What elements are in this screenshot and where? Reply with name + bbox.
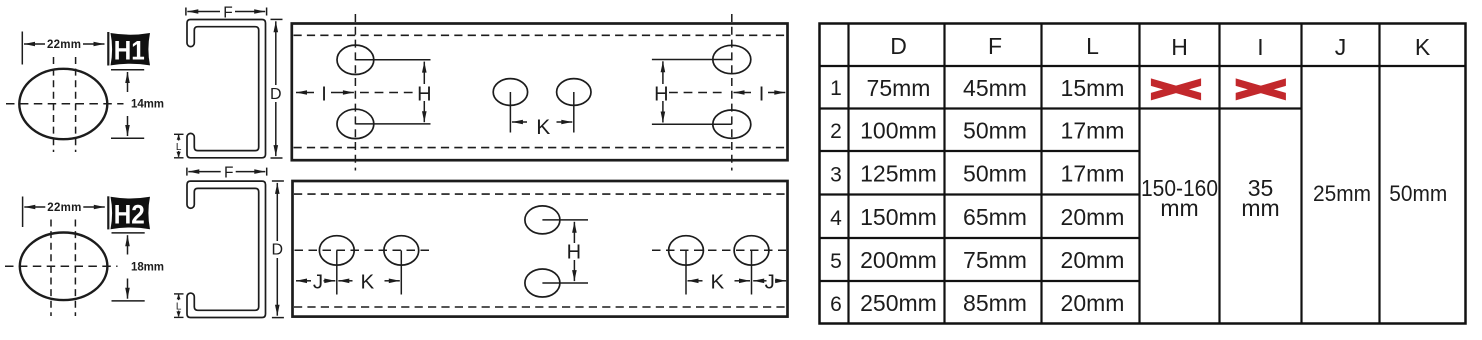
column D values (860, 75, 937, 316)
svg-text:20mm: 20mm (1061, 247, 1125, 273)
hole ellipse (H1) (19, 69, 107, 139)
red X mark (I row 1) (1236, 78, 1286, 100)
dimension 18mm (H2) (112, 233, 145, 301)
svg-text:H: H (567, 242, 581, 264)
dimension 14mm (H1) (111, 70, 144, 139)
svg-text:250mm: 250mm (860, 290, 937, 316)
dimension 22mm (H2) (23, 197, 105, 228)
dimension K (top panel) (512, 121, 572, 123)
svg-text:50mm: 50mm (963, 118, 1027, 144)
dimension I (top panel right) (669, 92, 785, 94)
stub lines center group (bottom panel) (542, 220, 588, 283)
svg-text:J: J (1335, 34, 1347, 60)
svg-text:mm: mm (1160, 195, 1198, 221)
dimension K (bottom panel left) (338, 280, 400, 282)
dimension L (top channel) (174, 134, 184, 158)
svg-text:F: F (988, 33, 1002, 59)
svg-text:D: D (270, 86, 282, 103)
hole bottom-left (337, 109, 374, 138)
svg-text:K: K (710, 271, 724, 294)
dimension D (top channel) (271, 19, 283, 158)
panel outline (bottom) (293, 181, 788, 317)
stub lines center group (top panel) (510, 92, 573, 133)
dimension H (bottom panel) (573, 222, 575, 281)
svg-text:1: 1 (830, 77, 842, 100)
hole right-1 (bottom panel) (669, 236, 704, 265)
edge dashed lines (top panel) (294, 35, 787, 147)
dimension J (bottom panel right) (753, 280, 786, 282)
dimension H (top panel left) (423, 62, 425, 123)
svg-text:22mm: 22mm (47, 39, 81, 51)
svg-text:4: 4 (830, 207, 842, 230)
svg-text:H: H (1171, 34, 1188, 60)
stub lines left group (bottom panel) (337, 250, 402, 294)
hole top-right (713, 45, 751, 73)
hole right-2 (bottom panel) (734, 236, 769, 265)
svg-text:150mm: 150mm (860, 204, 937, 230)
panel outline (top) (292, 24, 788, 161)
svg-text:K: K (536, 116, 550, 139)
svg-text:F: F (224, 164, 233, 181)
svg-text:14mm: 14mm (131, 99, 164, 111)
svg-text:85mm: 85mm (963, 290, 1027, 316)
svg-text:75mm: 75mm (963, 247, 1027, 273)
svg-text:18mm: 18mm (131, 262, 164, 274)
stub lines right group (bottom panel) (686, 250, 752, 294)
hole left-1 (bottom panel) (319, 236, 354, 265)
centerline right segment (bottom panel) (652, 249, 786, 251)
dimension D (bottom channel) (272, 181, 284, 318)
svg-text:D: D (890, 33, 907, 59)
centerline left segment (bottom panel) (295, 249, 431, 251)
dimension F (bottom channel) (187, 168, 267, 176)
svg-text:L: L (176, 301, 182, 312)
channel cross-section outline (bottom) (187, 181, 266, 317)
svg-text:I: I (1257, 34, 1263, 60)
svg-text:3: 3 (830, 164, 842, 187)
extension lines right group (652, 60, 732, 125)
svg-text:15mm: 15mm (1061, 75, 1125, 101)
svg-text:50mm: 50mm (1389, 181, 1447, 206)
svg-text:17mm: 17mm (1061, 161, 1125, 187)
svg-text:H2: H2 (114, 199, 145, 229)
centerlines (H1) (6, 57, 124, 152)
dimension 22mm (H1) (22, 32, 104, 65)
extension lines left group (355, 60, 430, 124)
hole center-right (top panel) (557, 79, 591, 106)
svg-text:100mm: 100mm (860, 118, 937, 144)
dimension L (bottom channel) (174, 294, 184, 318)
svg-text:50mm: 50mm (963, 161, 1027, 187)
dimension K (bottom panel right) (688, 280, 751, 282)
svg-text:D: D (272, 242, 284, 259)
hole center-top (bottom panel) (525, 206, 560, 234)
table row lines (820, 66, 1466, 281)
dimension J (bottom panel left) (296, 280, 335, 282)
hole top-left (337, 45, 374, 74)
vertical centerline right group (top panel) (731, 14, 733, 171)
svg-text:H1: H1 (114, 36, 145, 66)
table outer border (820, 24, 1466, 324)
svg-text:75mm: 75mm (867, 75, 931, 101)
dimension I (top panel left) (296, 92, 416, 94)
hole ellipse (H2) (20, 232, 108, 300)
svg-text:20mm: 20mm (1061, 290, 1125, 316)
svg-text:L: L (176, 142, 182, 153)
svg-text:20mm: 20mm (1061, 204, 1125, 230)
svg-text:H: H (417, 84, 431, 106)
hole center-bottom (bottom panel) (525, 269, 560, 297)
svg-text:J: J (313, 271, 323, 294)
svg-text:65mm: 65mm (963, 204, 1027, 230)
svg-text:L: L (1086, 33, 1099, 59)
svg-text:6: 6 (830, 293, 842, 316)
edge dashed lines (bottom panel) (294, 194, 786, 307)
column L values (1061, 75, 1125, 316)
row numbers (830, 77, 842, 316)
svg-text:2: 2 (830, 120, 842, 143)
svg-text:mm: mm (1241, 195, 1279, 221)
svg-text:K: K (1415, 34, 1431, 60)
table column lines (849, 24, 1380, 324)
H1 badge (107, 32, 109, 66)
svg-text:H: H (654, 84, 668, 106)
svg-text:J: J (765, 271, 775, 294)
svg-text:K: K (360, 271, 374, 294)
H2 badge (107, 196, 109, 229)
svg-text:200mm: 200mm (860, 247, 937, 273)
centerlines (H2) (5, 220, 118, 317)
dimension H (top panel right) (662, 61, 664, 122)
hole left-2 (bottom panel) (384, 236, 419, 265)
svg-text:125mm: 125mm (860, 161, 937, 187)
vertical centerline left group (top panel) (354, 14, 356, 171)
red X mark (H row 1) (1151, 78, 1201, 100)
svg-text:17mm: 17mm (1061, 118, 1125, 144)
dimension F (top channel) (186, 8, 267, 16)
channel cross-section outline (top) (187, 20, 266, 158)
column F values (963, 75, 1027, 316)
svg-text:I: I (321, 83, 327, 105)
svg-text:45mm: 45mm (963, 75, 1027, 101)
svg-text:5: 5 (830, 250, 842, 273)
svg-text:I: I (759, 83, 765, 105)
svg-text:22mm: 22mm (47, 202, 81, 214)
svg-text:25mm: 25mm (1313, 181, 1371, 206)
hole bottom-right (713, 110, 751, 138)
hole center-left (top panel) (493, 79, 527, 106)
